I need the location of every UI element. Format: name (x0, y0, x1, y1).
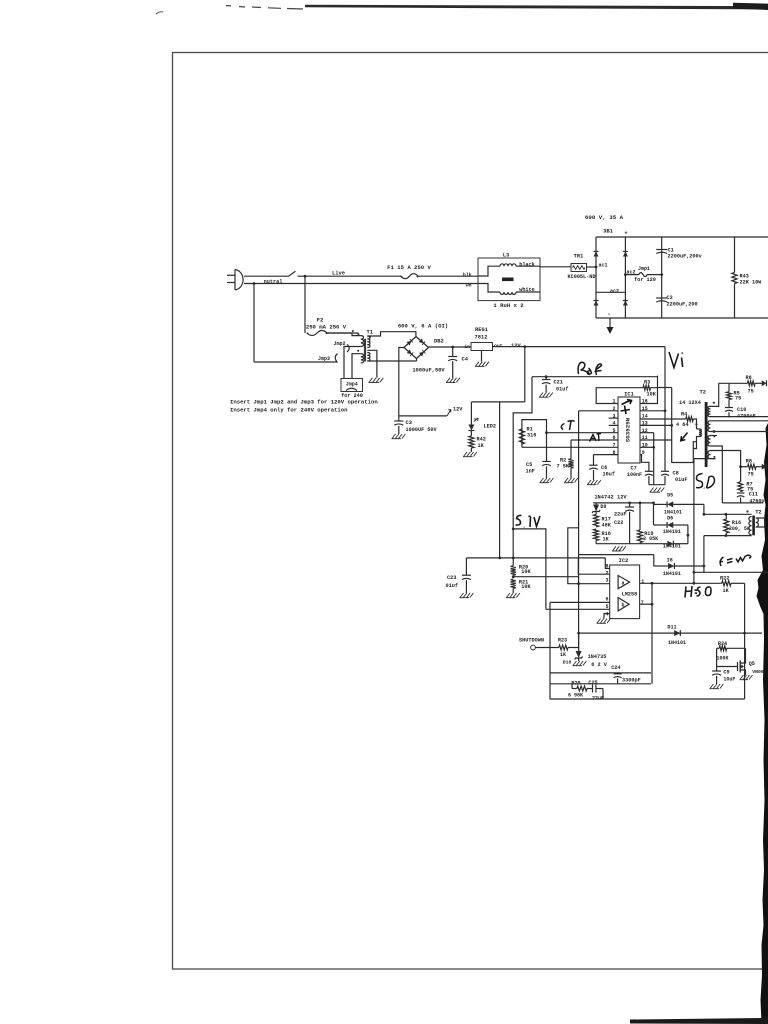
capacitor C4 (452, 347, 454, 357)
wire DB2 minus bottom vertex stub (416, 359, 418, 362)
wire IC2 pin4 ground (604, 614, 610, 619)
svg-text:1N4742 12V: 1N4742 12V (594, 495, 627, 501)
transformer T2 core (705, 402, 708, 467)
svg-text:3B1: 3B1 (603, 229, 613, 235)
transformer T2 secondary winding S3 (708, 436, 711, 447)
svg-text:12V: 12V (453, 407, 463, 413)
svg-text:1N4101: 1N4101 (668, 640, 686, 646)
op-amp IC2 b (618, 598, 629, 611)
wire left bus vertical (549, 602, 551, 699)
svg-text:1: 1 (641, 579, 644, 585)
svg-text:1000UF 50V: 1000UF 50V (406, 427, 438, 433)
svg-text:C8: C8 (673, 471, 679, 477)
resistor R43 (734, 237, 736, 273)
wire T1 secondary center tap (367, 350, 377, 378)
svg-text:T2: T2 (755, 510, 761, 516)
resistor R22 (722, 581, 731, 586)
resistor R20 (511, 566, 516, 575)
fuse F1 (401, 274, 418, 279)
transformer T2 primary winding (699, 429, 701, 437)
wire long left vertical SD net (693, 459, 695, 584)
capacitor C24 (617, 672, 619, 675)
wire IC1 pin2 long net (579, 410, 618, 412)
wire IC1 pin10 (640, 446, 654, 448)
handwritten L equals annotation (720, 555, 751, 566)
svg-text:100nF: 100nF (627, 472, 642, 478)
svg-text:01uf: 01uf (556, 386, 568, 392)
svg-text:R25: R25 (571, 681, 580, 687)
resistor R25 capacitor C25 branch (571, 684, 573, 689)
wire neutral down (253, 284, 255, 363)
svg-text:C2: C2 (667, 295, 673, 301)
bridge diode D4 (623, 301, 628, 306)
wire IC1 pin2 net to IC2 pin3 (568, 528, 610, 584)
svg-text:600 V, 35 A: 600 V, 35 A (585, 214, 624, 221)
svg-text:REG1: REG1 (475, 327, 488, 333)
bridge second rail (624, 237, 626, 318)
wire 12V down to C8 (664, 347, 666, 472)
svg-text:R8: R8 (746, 459, 752, 465)
mains plug P1 (235, 270, 243, 291)
transformer T2b top rail (704, 513, 752, 515)
ground under C5 (540, 478, 544, 483)
svg-text:6: 6 (605, 597, 608, 603)
svg-text:D5: D5 (667, 493, 673, 499)
svg-text:ac1: ac1 (599, 263, 608, 269)
wire T1 secondary bottom (367, 360, 416, 362)
wire S4 bottom lead (694, 458, 716, 460)
diode CR right edge lower (762, 464, 767, 470)
svg-text:200, 5W: 200, 5W (729, 526, 750, 532)
svg-text:2 05K: 2 05K (643, 536, 658, 542)
wire outputs join vertical (651, 583, 653, 684)
transformer T1 primary winding 1 (361, 336, 364, 347)
ground under R2 (565, 478, 569, 483)
wire IC1 pin4 stub (609, 424, 618, 426)
wire TR1 to bridge ac1 (587, 266, 597, 268)
wire bus A (550, 672, 651, 674)
wire ref corner (513, 377, 532, 566)
svg-text:in: in (464, 344, 470, 350)
svg-text:LM258: LM258 (622, 592, 638, 598)
wire IC1 pin15 Vin (640, 410, 665, 412)
ground under C9 (710, 684, 714, 689)
capacitor C2 (656, 297, 667, 299)
capacitor C1 (661, 237, 663, 318)
capacitor C11 (737, 492, 745, 494)
wire rail jog to IC2 pin2 (578, 558, 609, 574)
resistor R3 (643, 385, 651, 390)
wire live switch to fuse F1 (298, 275, 402, 277)
wire bottom bus of output block (722, 502, 763, 504)
svg-text:1nF: 1nF (526, 468, 535, 474)
svg-text:75: 75 (735, 396, 741, 402)
resistor R4 (686, 417, 694, 422)
resistor R23 (559, 645, 568, 650)
svg-text:7812: 7812 (475, 335, 488, 341)
wire live fuse to L3 (418, 275, 478, 277)
svg-text:I8: I8 (667, 557, 673, 563)
diode D7 (667, 541, 673, 547)
svg-text:1N4101: 1N4101 (663, 571, 681, 577)
svg-text:KC005L-ND: KC005L-ND (567, 274, 595, 280)
wire R3 node extension (658, 387, 672, 389)
handwritten arrow at T2 primary (681, 433, 688, 441)
handwritten H equals 5.0 annotation (685, 586, 711, 598)
svg-text:C25: C25 (588, 680, 597, 686)
svg-text:white: white (519, 287, 535, 293)
wire S2 top lead (711, 420, 768, 422)
svg-text:Insert Jmp4 only for 240V oper: Insert Jmp4 only for 240V operation (230, 407, 348, 414)
bridge diode D2 (594, 301, 599, 306)
transformer T2b core (752, 516, 755, 536)
capacitor C21 (545, 375, 548, 378)
op-amp IC1 box SG3525N (618, 397, 640, 463)
bridge rectifier DB2 (404, 337, 416, 348)
svg-text:IC2: IC2 (619, 558, 629, 564)
wire DB2 plus to REG1 (429, 346, 472, 348)
wire R3 to pin16 (640, 388, 658, 404)
handwritten CT annotation (561, 421, 574, 430)
wire IC1 pin13 (640, 424, 672, 426)
svg-text:D6: D6 (667, 516, 673, 522)
svg-text:250 mA 250 V: 250 mA 250 V (306, 324, 347, 331)
ground zener block (613, 546, 617, 551)
svg-text:C23: C23 (447, 575, 456, 581)
transformer T1 secondary winding 2 (367, 353, 370, 362)
ground under R42 (464, 452, 468, 457)
svg-text:Live: Live (332, 271, 345, 277)
wire rail to IC2 pin8 (605, 558, 609, 569)
ground under Q5 (740, 675, 744, 680)
svg-text:2200uF,200: 2200uF,200 (667, 302, 698, 308)
wire LED feed horizontal (471, 401, 524, 403)
resistor R17 (595, 512, 597, 515)
transformer T2b primary winding (749, 517, 752, 535)
svg-text:wh: wh (466, 283, 472, 289)
svg-text:C7: C7 (631, 466, 637, 472)
svg-text:VN06: VN06 (752, 669, 764, 675)
wire D8 feed (579, 554, 654, 556)
switch S1 (289, 271, 296, 276)
svg-text:nutral: nutral (264, 279, 283, 285)
resistor R2 (570, 440, 572, 459)
svg-text:R23: R23 (558, 638, 567, 644)
resistor R1 box (522, 420, 547, 448)
wire IC1 pin8 soft start (594, 454, 619, 456)
bridge diode D3 (623, 252, 628, 257)
wire Vref rail to R3 node (657, 376, 659, 388)
wire output loop around R4 (672, 388, 697, 463)
svg-text:C9: C9 (723, 670, 729, 676)
ground REG1 (481, 351, 483, 362)
wire DB2 minus (399, 348, 404, 416)
svg-text:DB2: DB2 (434, 339, 444, 345)
wire 5V sense rail (466, 557, 605, 559)
resistor R6 (748, 381, 756, 386)
inductor L3 core (502, 278, 514, 282)
svg-text:7 5K: 7 5K (557, 464, 570, 470)
resistor R16 (725, 514, 727, 519)
wire IC1 pin3 stub (609, 417, 618, 419)
resistor R8 (741, 466, 748, 468)
wire IC1 pin7 to R1 box (522, 446, 618, 448)
wire divider mid to jog (513, 576, 578, 578)
wire F2 to T1 primary 1 top (327, 333, 361, 336)
wire bus B (550, 683, 651, 685)
svg-text:3300pF: 3300pF (622, 678, 641, 684)
resistor R24 (727, 647, 745, 649)
wire IC2 pin5 (546, 608, 610, 610)
svg-text:D11: D11 (667, 625, 676, 631)
wire IC1 pin11 output B (640, 439, 672, 441)
svg-text:C10: C10 (737, 407, 746, 413)
svg-text:22uF: 22uF (614, 512, 626, 518)
LED LED2 (470, 402, 472, 425)
svg-text:10K: 10K (647, 391, 657, 397)
svg-text:7: 7 (641, 600, 644, 606)
wire shutdown to R23 (535, 647, 558, 649)
wire zener block bottom rail (595, 540, 597, 543)
svg-text:for 120: for 120 (634, 277, 656, 283)
svg-text:SG3525N: SG3525N (625, 417, 632, 442)
voltage regulator REG1 (471, 343, 493, 351)
svg-text:-: - (607, 311, 611, 318)
wire live down to F2 (304, 276, 306, 333)
svg-text:Insert Jmp1 Jmp2 and Jmp3 for: Insert Jmp1 Jmp2 and Jmp3 for 120V opera… (230, 399, 378, 406)
wire D6 D7 junction (687, 525, 689, 544)
svg-text:LED2: LED2 (484, 424, 496, 430)
transformer T2b bottom rail (704, 535, 752, 537)
transformer T1 secondary winding 1 (367, 336, 370, 348)
ground under R21 (507, 593, 511, 598)
svg-text:10K: 10K (521, 584, 531, 590)
svg-text:D10: D10 (563, 660, 572, 666)
svg-text:2: 2 (605, 570, 608, 576)
diode CR right edge upper (762, 380, 767, 386)
svg-text:8: 8 (605, 563, 608, 569)
jumper Jmp4 box (341, 379, 363, 392)
transformer T2 secondary winding S2 (708, 421, 711, 432)
svg-text:22K 10W: 22K 10W (740, 280, 763, 286)
svg-text:600 V, 6 A (GI): 600 V, 6 A (GI) (398, 323, 448, 330)
svg-text:R4: R4 (681, 412, 687, 418)
svg-text:Jmp1: Jmp1 (638, 266, 650, 272)
handwritten Vi annotation (669, 352, 683, 368)
diode D11 (674, 630, 680, 636)
wire 12V rail (493, 346, 666, 348)
svg-text:100K: 100K (716, 656, 728, 662)
wire IC1 pin6 RT (571, 439, 618, 441)
svg-text:C24: C24 (611, 665, 620, 671)
svg-text:R6: R6 (746, 375, 752, 381)
svg-text:10uf: 10uf (603, 472, 615, 478)
wire S1 top to R6 rail (711, 383, 719, 406)
capacitor C22 (629, 503, 631, 507)
ground bus under C7 C8 (649, 484, 665, 486)
bridge top rail to C1 and R43 (596, 236, 768, 238)
svg-text:9: 9 (642, 450, 645, 456)
bridge left rail (595, 237, 597, 318)
resistor R5 (728, 383, 730, 391)
svg-text:D9: D9 (600, 504, 606, 510)
svg-text:C11: C11 (749, 492, 758, 498)
svg-text:F1 15 A 250 V: F1 15 A 250 V (387, 264, 431, 271)
inductor L3 box (478, 258, 540, 301)
wire op-amp a output to R22 (640, 582, 722, 584)
transistor Q5 MOSFET (717, 666, 738, 668)
bridge bottom rail (596, 317, 768, 319)
handwritten RT annotation (590, 434, 602, 442)
resistor R42 (470, 431, 472, 436)
svg-text:R42: R42 (477, 437, 486, 443)
transformer T1 primary winding 2 (361, 354, 364, 363)
wire Vref net vertical (499, 402, 501, 558)
ground under T1 (369, 378, 373, 383)
svg-text:10K: 10K (521, 569, 531, 575)
wire F2 to T1 (327, 332, 359, 334)
svg-text:1N4101: 1N4101 (663, 529, 681, 535)
wire bottom bus (550, 698, 745, 700)
wire S3 bottom down (711, 446, 723, 503)
svg-text:4700nF: 4700nF (737, 413, 756, 419)
svg-text:C3: C3 (406, 420, 412, 426)
wire ac2 jumper lead (625, 274, 631, 276)
svg-text:316: 316 (527, 432, 536, 438)
svg-text:6 2 V: 6 2 V (591, 662, 607, 668)
handwritten SD annotation (696, 474, 715, 489)
svg-text:Q5: Q5 (749, 661, 755, 667)
svg-text:Jmp3: Jmp3 (318, 356, 330, 362)
svg-text:L3: L3 (503, 253, 509, 259)
svg-text:R16: R16 (732, 520, 741, 526)
wire SD line to right edge (694, 571, 768, 573)
wire right vertical to bottom bus (744, 583, 746, 699)
svg-text:1K: 1K (723, 588, 730, 594)
handwritten Ref annotation (578, 362, 601, 375)
bridge diode D1 (594, 252, 599, 257)
svg-text:SHUTDOWN: SHUTDOWN (519, 637, 544, 643)
wire S3 top lead (711, 435, 718, 437)
op-amp IC2 a (618, 576, 630, 589)
resistor R19 (639, 503, 641, 530)
handwritten check mark on IC1 (622, 400, 632, 405)
svg-text:Jmp2: Jmp2 (333, 341, 345, 347)
node 12V stub (399, 415, 447, 417)
ground under D10 (578, 658, 580, 661)
wire R6 rail (719, 382, 748, 384)
capacitor C5 (546, 447, 548, 461)
svg-text:black: black (519, 262, 535, 268)
ground under C21 (540, 393, 544, 398)
svg-text:10uF: 10uF (723, 676, 735, 682)
wire S4 top to R8 (711, 451, 741, 467)
wire op-amp b output (640, 603, 652, 605)
wire Vref rail (532, 376, 658, 378)
svg-text:1K: 1K (603, 537, 610, 543)
wire R4 to T2 primary (693, 419, 696, 429)
svg-text:IC1: IC1 (624, 391, 634, 397)
thermistor TR1 (540, 266, 571, 268)
wire zener block top rail (593, 502, 653, 504)
zener diode D9 (595, 503, 597, 505)
svg-text:Jmp4: Jmp4 (346, 381, 358, 387)
svg-text:48K: 48K (602, 522, 612, 528)
svg-text:22uF: 22uF (592, 696, 604, 702)
transformer T2 secondary winding S4 (708, 451, 711, 459)
transformer T1 core (364, 339, 366, 362)
svg-text:F2: F2 (317, 317, 324, 324)
svg-text:1N4101: 1N4101 (664, 509, 682, 515)
capacitor C8 (661, 470, 669, 472)
svg-text:R3: R3 (644, 380, 650, 386)
svg-text:C22: C22 (614, 520, 623, 526)
capacitor C3 (398, 416, 400, 421)
handwritten 5.1V annotation (516, 515, 541, 527)
svg-text:6 98K: 6 98K (568, 693, 583, 699)
svg-text:01uF: 01uF (675, 477, 687, 483)
wire IC2 pin6 (550, 601, 610, 603)
wire IC1 pin5 CT (547, 432, 619, 434)
svg-text:C4: C4 (462, 357, 469, 363)
resistor R18 (594, 529, 599, 540)
ground under C23 (460, 593, 464, 598)
svg-text:C21: C21 (554, 380, 563, 386)
wire T2b left vertical (703, 536, 705, 573)
wire S1 bottom lead (711, 416, 768, 418)
svg-text:4: 4 (605, 611, 608, 617)
zener diode D10 (576, 651, 582, 658)
svg-text:C5: C5 (526, 462, 532, 468)
svg-text:TR1: TR1 (574, 254, 584, 260)
svg-text:R24: R24 (718, 641, 727, 647)
svg-text:1K: 1K (560, 652, 566, 658)
svg-text:1000uF,50V: 1000uF,50V (412, 368, 445, 374)
resistor R21 (511, 579, 516, 588)
inductor L3 winding white (478, 284, 500, 293)
svg-text:C6: C6 (601, 465, 607, 471)
svg-text:75: 75 (748, 472, 754, 478)
svg-text:3: 3 (605, 578, 608, 584)
svg-text:1N4735: 1N4735 (588, 654, 607, 660)
wire Vref to IC2 pin5 (513, 529, 546, 609)
wire live from plug to switch (244, 275, 289, 277)
wire IC1 pin1 feedback loop (596, 388, 643, 404)
diode D6 (653, 503, 655, 525)
capacitor C7 (645, 470, 653, 472)
capacitor C10 (728, 400, 730, 408)
svg-text:4 64: 4 64 (676, 422, 688, 428)
svg-text:T2: T2 (700, 390, 706, 396)
op-amp IC2 box (610, 565, 640, 619)
wire 12V down to LED feed (524, 347, 526, 402)
wire neutral plug to L3 (244, 283, 478, 285)
svg-text:2200uF,200v: 2200uF,200v (668, 254, 703, 260)
svg-text:R22: R22 (720, 576, 729, 582)
svg-text:1N4101: 1N4101 (663, 544, 681, 550)
resistor R7 (740, 467, 742, 482)
wire IC1 pin12 ground (640, 432, 654, 434)
wire T1 secondary top to bridge (367, 332, 416, 337)
wire D5 to T2 output rail (703, 504, 705, 514)
svg-text:1K: 1K (478, 443, 485, 449)
wire shutdown node vertical (578, 633, 580, 651)
ground under C6 (588, 480, 592, 485)
transformer T2 secondary winding S1 (708, 406, 711, 416)
svg-text:a: a (622, 580, 625, 586)
svg-text:14 12X4: 14 12X4 (679, 400, 701, 406)
svg-text:1 RuH x 2: 1 RuH x 2 (493, 302, 524, 309)
